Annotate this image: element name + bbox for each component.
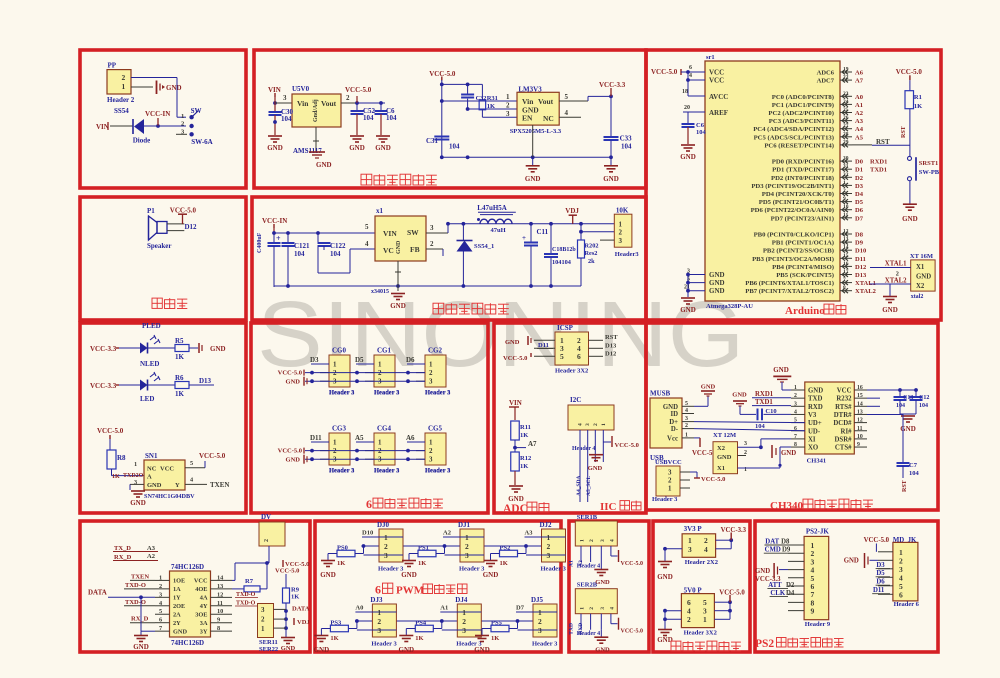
- svg-text:C32: C32: [476, 95, 487, 102]
- svg-text:28: 28: [843, 131, 849, 137]
- svg-text:A4_SDA: A4_SDA: [576, 475, 582, 496]
- svg-text:xtal2: xtal2: [911, 294, 924, 300]
- svg-text:9: 9: [843, 196, 846, 202]
- svg-text:Header 3: Header 3: [329, 390, 355, 397]
- svg-text:5: 5: [565, 93, 569, 101]
- svg-text:VCC-5.0: VCC-5.0: [199, 452, 226, 460]
- svg-text:2: 2: [538, 617, 542, 626]
- svg-text:PB1 (PCINT1/OC1A): PB1 (PCINT1/OC1A): [772, 240, 834, 247]
- svg-text:sr1: sr1: [706, 54, 715, 61]
- svg-text:D13: D13: [855, 272, 867, 279]
- svg-text:A3: A3: [147, 545, 156, 552]
- svg-text:2: 2: [430, 240, 434, 248]
- svg-text:A6: A6: [406, 434, 415, 442]
- svg-text:GND: GND: [588, 465, 603, 472]
- svg-text:2: 2: [593, 423, 599, 426]
- svg-text:16: 16: [843, 261, 849, 267]
- svg-text:DJ1: DJ1: [458, 521, 471, 529]
- svg-text:Header 3: Header 3: [541, 566, 567, 573]
- svg-text:SPX5205M5-L-3.3: SPX5205M5-L-3.3: [510, 128, 562, 135]
- svg-text:15: 15: [843, 253, 849, 259]
- svg-text:PC3 (ADC3/PCINT11): PC3 (ADC3/PCINT11): [769, 118, 834, 125]
- svg-text:104: 104: [896, 403, 905, 409]
- svg-text:2: 2: [261, 616, 265, 624]
- svg-text:NLED: NLED: [140, 360, 159, 368]
- svg-text:20: 20: [684, 105, 690, 111]
- svg-text:D2: D2: [855, 175, 863, 182]
- svg-text:3: 3: [744, 441, 747, 447]
- svg-text:GND: GND: [902, 215, 918, 223]
- svg-text:TXEN: TXEN: [210, 481, 229, 489]
- svg-text:GND: GND: [396, 240, 402, 254]
- svg-text:3: 3: [429, 456, 433, 464]
- svg-text:TXD: TXD: [569, 623, 575, 635]
- svg-text:GND: GND: [882, 306, 898, 314]
- svg-text:Header 3X2: Header 3X2: [684, 630, 717, 637]
- svg-text:RX_D: RX_D: [114, 554, 132, 561]
- svg-text:2: 2: [687, 615, 691, 624]
- svg-text:104: 104: [281, 115, 292, 123]
- svg-text:GND: GND: [709, 287, 725, 295]
- svg-text:A2: A2: [855, 110, 863, 117]
- svg-text:2: 2: [547, 542, 551, 551]
- svg-text:Arduino: Arduino: [785, 305, 825, 317]
- svg-text:D6: D6: [406, 356, 415, 364]
- svg-text:6: 6: [577, 352, 581, 361]
- svg-text:C18B12b: C18B12b: [552, 247, 576, 253]
- svg-text:Header 4: Header 4: [572, 446, 595, 452]
- svg-text:D12: D12: [185, 223, 198, 231]
- svg-text:MUSB: MUSB: [650, 390, 671, 398]
- svg-text:1K: 1K: [415, 635, 423, 642]
- svg-text:2: 2: [685, 423, 688, 429]
- svg-text:PD0 (RXD/PCINT16): PD0 (RXD/PCINT16): [772, 159, 834, 166]
- svg-text:4A: 4A: [200, 595, 208, 602]
- svg-text:C31: C31: [426, 137, 439, 145]
- svg-text:2OE: 2OE: [173, 603, 185, 610]
- svg-text:2: 2: [122, 73, 126, 82]
- svg-text:2: 2: [462, 617, 466, 626]
- svg-text:Header 3X2: Header 3X2: [555, 368, 588, 375]
- svg-text:13: 13: [857, 409, 863, 415]
- svg-text:SS54: SS54: [114, 107, 129, 115]
- svg-text:VIN: VIN: [96, 123, 109, 131]
- svg-text:RXD1: RXD1: [755, 391, 774, 398]
- svg-text:CG1: CG1: [377, 347, 392, 355]
- svg-text:6: 6: [375, 583, 381, 597]
- svg-text:4: 4: [578, 423, 584, 426]
- svg-text:D11: D11: [855, 256, 866, 263]
- svg-text:1K: 1K: [520, 432, 528, 439]
- svg-text:CH340: CH340: [770, 500, 804, 512]
- svg-text:GND: GND: [657, 573, 673, 581]
- svg-text:DATA: DATA: [292, 606, 310, 613]
- svg-text:104: 104: [909, 470, 920, 477]
- svg-text:104: 104: [330, 250, 341, 258]
- svg-text:C6: C6: [696, 122, 705, 129]
- svg-text:C10: C10: [765, 408, 776, 415]
- svg-text:5: 5: [685, 401, 688, 407]
- svg-text:SW-PB: SW-PB: [919, 169, 940, 176]
- svg-text:13: 13: [217, 583, 223, 590]
- svg-text:ID: ID: [670, 411, 678, 418]
- svg-text:3: 3: [462, 626, 466, 635]
- svg-text:PD6 (PCINT22/OC0A/AIN0): PD6 (PCINT22/OC0A/AIN0): [751, 207, 834, 214]
- svg-text:3: 3: [688, 545, 692, 554]
- svg-text:74HC126D: 74HC126D: [171, 639, 204, 647]
- svg-text:PD2 (INT0/PCINT18): PD2 (INT0/PCINT18): [771, 175, 834, 182]
- svg-text:GND: GND: [375, 144, 391, 152]
- svg-text:3Y: 3Y: [200, 628, 208, 635]
- svg-text:1A: 1A: [173, 586, 181, 593]
- svg-text:1: 1: [378, 439, 382, 447]
- svg-text:GND: GND: [483, 571, 499, 579]
- svg-text:1K: 1K: [500, 560, 508, 567]
- svg-text:3: 3: [600, 539, 606, 542]
- svg-text:A2: A2: [147, 553, 155, 560]
- svg-text:GND: GND: [320, 571, 336, 579]
- svg-text:1K: 1K: [112, 474, 120, 480]
- svg-text:1OE: 1OE: [173, 578, 185, 585]
- svg-text:C121: C121: [294, 242, 310, 250]
- svg-text:1: 1: [462, 608, 466, 617]
- svg-text:GND: GND: [781, 450, 796, 457]
- svg-text:D6: D6: [876, 579, 885, 586]
- svg-text:1K: 1K: [330, 635, 338, 642]
- svg-text:1K: 1K: [491, 635, 499, 642]
- svg-text:DCD#: DCD#: [833, 420, 852, 427]
- svg-text:VCC-5.0: VCC-5.0: [615, 442, 639, 449]
- svg-text:VCC-5.0: VCC-5.0: [170, 207, 197, 215]
- svg-text:2: 2: [465, 542, 469, 551]
- svg-text:Diode: Diode: [133, 137, 151, 145]
- svg-text:14: 14: [843, 245, 849, 251]
- svg-text:GND: GND: [709, 279, 725, 287]
- svg-text:VCC-5.0: VCC-5.0: [701, 476, 725, 483]
- svg-text:1K: 1K: [337, 560, 345, 567]
- svg-text:D7: D7: [516, 605, 525, 612]
- svg-text:VCC-IN: VCC-IN: [262, 217, 287, 225]
- svg-text:2: 2: [429, 447, 433, 455]
- svg-text:D9: D9: [855, 240, 864, 247]
- svg-text:6: 6: [366, 497, 372, 511]
- svg-text:PWM: PWM: [396, 585, 425, 597]
- svg-text:GND: GND: [210, 345, 226, 353]
- svg-text:XI: XI: [808, 436, 816, 443]
- svg-text:VCC: VCC: [194, 578, 208, 585]
- svg-text:VCC-3.3: VCC-3.3: [90, 382, 117, 390]
- svg-text:2: 2: [619, 229, 623, 237]
- svg-text:x34015: x34015: [371, 289, 389, 295]
- svg-text:P1: P1: [147, 207, 155, 215]
- svg-text:1: 1: [333, 439, 337, 447]
- svg-text:A1: A1: [569, 560, 575, 567]
- svg-text:3OE: 3OE: [195, 612, 207, 619]
- svg-text:4: 4: [609, 607, 615, 610]
- svg-text:XTAL2: XTAL2: [855, 288, 876, 295]
- svg-text:VC: VC: [383, 246, 394, 255]
- svg-text:X1: X1: [717, 465, 725, 472]
- svg-text:D3: D3: [310, 356, 319, 364]
- svg-text:x1: x1: [376, 207, 384, 215]
- svg-text:A0: A0: [355, 605, 363, 612]
- svg-text:30: 30: [843, 156, 849, 162]
- svg-text:3: 3: [585, 423, 591, 426]
- svg-text:D8: D8: [781, 539, 790, 546]
- svg-text:ICSP: ICSP: [557, 324, 574, 332]
- svg-text:Header 3: Header 3: [652, 496, 678, 503]
- svg-text:5: 5: [365, 223, 369, 231]
- svg-text:VCC-5.0: VCC-5.0: [278, 448, 302, 455]
- svg-text:NC: NC: [543, 114, 554, 123]
- svg-text:SER11: SER11: [259, 639, 278, 646]
- svg-text:Header 3: Header 3: [459, 566, 485, 573]
- svg-text:2: 2: [264, 539, 270, 542]
- svg-text:VIN: VIN: [509, 399, 522, 407]
- svg-text:PB6 (PCINT6/XTAL1/TOSC1): PB6 (PCINT6/XTAL1/TOSC1): [745, 280, 834, 287]
- svg-text:PD5 (PCINT21/OC0B/T1): PD5 (PCINT21/OC0B/T1): [759, 199, 834, 206]
- svg-text:25: 25: [843, 107, 849, 113]
- svg-text:GND: GND: [595, 647, 610, 654]
- svg-text:D11: D11: [310, 434, 322, 442]
- svg-text:R8: R8: [117, 454, 126, 462]
- svg-text:C13: C13: [903, 395, 913, 401]
- svg-text:74HC126D: 74HC126D: [171, 563, 204, 571]
- svg-text:6: 6: [899, 590, 903, 599]
- svg-text:4: 4: [704, 545, 708, 554]
- svg-text:R9: R9: [291, 587, 300, 594]
- svg-text:CG0: CG0: [332, 347, 347, 355]
- svg-text:A5: A5: [355, 434, 364, 442]
- svg-text:4Y: 4Y: [200, 603, 208, 610]
- svg-text:2: 2: [506, 102, 510, 110]
- svg-text:D2: D2: [786, 582, 795, 589]
- svg-text:VCC: VCC: [160, 466, 174, 473]
- svg-text:9: 9: [857, 442, 860, 448]
- svg-text:XT 12M: XT 12M: [713, 432, 736, 439]
- svg-text:4: 4: [794, 409, 797, 415]
- svg-text:VCC-IN: VCC-IN: [145, 110, 170, 118]
- svg-text:VCC: VCC: [837, 388, 852, 395]
- svg-text:4: 4: [365, 240, 369, 248]
- svg-text:4: 4: [685, 408, 688, 414]
- svg-text:3: 3: [619, 237, 623, 245]
- svg-text:PB2 (PCINT2/SS/OC1B): PB2 (PCINT2/SS/OC1B): [763, 248, 834, 255]
- svg-text:PP: PP: [108, 62, 117, 70]
- svg-text:7: 7: [843, 277, 846, 283]
- svg-text:5: 5: [190, 460, 193, 467]
- svg-text:Atmega328P-AU: Atmega328P-AU: [706, 303, 753, 310]
- svg-text:PD7 (PCINT23/AIN1): PD7 (PCINT23/AIN1): [771, 215, 834, 222]
- svg-text:VCC: VCC: [709, 77, 724, 85]
- svg-text:10K: 10K: [616, 207, 629, 215]
- svg-text:C122: C122: [330, 242, 346, 250]
- svg-text:2A: 2A: [173, 612, 181, 619]
- svg-text:Header 4: Header 4: [577, 631, 600, 637]
- svg-text:2: 2: [794, 393, 797, 399]
- svg-text:1: 1: [843, 180, 846, 186]
- svg-text:C7: C7: [909, 462, 918, 469]
- svg-text:CG3: CG3: [332, 425, 347, 433]
- svg-text:R6: R6: [175, 374, 184, 382]
- svg-text:2: 2: [181, 121, 184, 128]
- svg-text:32: 32: [843, 172, 849, 178]
- svg-text:DAT: DAT: [765, 539, 779, 546]
- svg-text:GND: GND: [281, 645, 296, 652]
- svg-text:6: 6: [159, 617, 162, 624]
- svg-text:TXD1: TXD1: [870, 166, 887, 173]
- svg-text:1: 1: [794, 385, 797, 391]
- svg-text:3: 3: [506, 110, 510, 118]
- svg-text:GND: GND: [349, 144, 365, 152]
- svg-text:PD4 (PCINT20/XCK/T0): PD4 (PCINT20/XCK/T0): [762, 191, 834, 198]
- svg-text:1K: 1K: [291, 594, 299, 601]
- svg-text:GND: GND: [663, 404, 678, 411]
- svg-text:17: 17: [843, 269, 849, 275]
- svg-text:GND: GND: [166, 84, 182, 92]
- svg-text:D7: D7: [855, 215, 864, 222]
- svg-text:1Y: 1Y: [173, 595, 181, 602]
- svg-text:1K: 1K: [914, 103, 922, 110]
- svg-text:D12: D12: [855, 264, 866, 271]
- svg-text:23: 23: [843, 91, 849, 97]
- svg-text:VCC-5.0: VCC-5.0: [651, 68, 678, 76]
- svg-text:R5: R5: [175, 337, 184, 345]
- svg-text:D8: D8: [855, 232, 864, 239]
- svg-text:D11: D11: [538, 342, 549, 349]
- svg-text:CG2: CG2: [428, 347, 443, 355]
- svg-text:R7: R7: [245, 578, 254, 585]
- svg-text:ADC6: ADC6: [817, 70, 835, 77]
- svg-text:Header 2X2: Header 2X2: [685, 559, 718, 566]
- svg-text:12: 12: [843, 229, 849, 235]
- svg-text:27: 27: [843, 123, 849, 129]
- svg-text:3: 3: [547, 551, 551, 560]
- svg-text:XT 16M: XT 16M: [910, 253, 933, 260]
- svg-text:3V3 P: 3V3 P: [684, 525, 703, 533]
- svg-text:UD+: UD+: [808, 420, 822, 427]
- svg-text:SN1: SN1: [145, 452, 158, 460]
- svg-text:Header 3: Header 3: [532, 641, 558, 648]
- svg-text:6: 6: [689, 65, 692, 71]
- svg-text:PB5 (SCK/PCINT5): PB5 (SCK/PCINT5): [776, 272, 834, 279]
- svg-text:1: 1: [580, 607, 586, 610]
- svg-text:GND: GND: [286, 379, 301, 386]
- svg-text:ADC7: ADC7: [817, 78, 835, 85]
- svg-text:3: 3: [283, 94, 287, 102]
- svg-text:I2C: I2C: [570, 396, 581, 404]
- svg-text:8: 8: [217, 625, 220, 632]
- svg-text:A1: A1: [855, 102, 863, 109]
- svg-text:D3: D3: [855, 183, 864, 190]
- svg-text:3: 3: [794, 401, 797, 407]
- svg-text:1: 1: [122, 82, 126, 91]
- svg-text:104: 104: [755, 423, 766, 430]
- svg-text:RI#: RI#: [841, 428, 853, 435]
- svg-text:GND: GND: [717, 454, 732, 461]
- svg-text:Header 3: Header 3: [374, 390, 400, 397]
- svg-text:A1: A1: [440, 605, 448, 612]
- svg-text:3: 3: [134, 479, 137, 486]
- svg-text:1: 1: [261, 625, 265, 633]
- svg-text:A5: A5: [855, 134, 864, 141]
- svg-text:12: 12: [217, 591, 223, 598]
- svg-text:SRST1: SRST1: [919, 160, 939, 167]
- svg-text:1K: 1K: [487, 103, 495, 110]
- svg-text:D+: D+: [669, 419, 678, 426]
- svg-text:GND: GND: [173, 628, 187, 635]
- svg-text:VCC-5.0: VCC-5.0: [621, 629, 644, 635]
- svg-text:Header 2: Header 2: [107, 96, 135, 104]
- svg-text:D5: D5: [876, 570, 885, 577]
- svg-text:1: 1: [378, 361, 382, 369]
- svg-text:A3: A3: [525, 530, 534, 537]
- svg-text:Header 6: Header 6: [894, 601, 920, 608]
- svg-text:UD-: UD-: [808, 428, 821, 435]
- svg-text:GND: GND: [267, 144, 283, 152]
- svg-text:1: 1: [159, 574, 162, 581]
- svg-text:GND: GND: [844, 558, 859, 565]
- svg-text:D5: D5: [355, 356, 364, 364]
- svg-text:A7: A7: [528, 440, 537, 448]
- svg-text:11: 11: [857, 426, 863, 432]
- svg-text:CG5: CG5: [428, 425, 443, 433]
- svg-text:1: 1: [601, 423, 607, 426]
- svg-text:C400uF: C400uF: [257, 232, 263, 253]
- svg-text:A0: A0: [855, 94, 863, 101]
- svg-text:X2: X2: [717, 445, 725, 452]
- svg-text:3: 3: [377, 626, 381, 635]
- svg-text:GND: GND: [916, 274, 931, 281]
- svg-text:CH341: CH341: [807, 458, 827, 465]
- svg-text:4: 4: [609, 539, 615, 542]
- svg-text:DSR#: DSR#: [835, 436, 853, 443]
- svg-text:GND: GND: [401, 571, 417, 579]
- svg-text:D9: D9: [782, 547, 791, 554]
- svg-text:1: 1: [538, 608, 542, 617]
- svg-text:VCC-5.0: VCC-5.0: [429, 70, 456, 78]
- svg-text:GND: GND: [603, 175, 619, 183]
- svg-text:SER2B: SER2B: [577, 582, 598, 589]
- svg-text:RTS#: RTS#: [835, 404, 852, 411]
- svg-text:ATT: ATT: [768, 582, 782, 589]
- svg-text:DJ5: DJ5: [531, 596, 544, 604]
- svg-text:VIN: VIN: [383, 229, 397, 238]
- svg-text:VDJ: VDJ: [565, 207, 579, 215]
- svg-text:14: 14: [857, 401, 863, 407]
- svg-text:2: 2: [429, 369, 433, 377]
- svg-text:RX_D: RX_D: [131, 616, 149, 623]
- svg-text:D0: D0: [855, 159, 863, 166]
- svg-text:VCC-5.0: VCC-5.0: [97, 427, 124, 435]
- svg-text:PB4 (PCINT4/MISO): PB4 (PCINT4/MISO): [772, 264, 834, 271]
- svg-text:24: 24: [843, 99, 849, 105]
- svg-text:GND: GND: [709, 271, 725, 279]
- svg-text:PC4 (ADC4/SDA/PCINT12): PC4 (ADC4/SDA/PCINT12): [753, 126, 834, 133]
- svg-text:DV: DV: [261, 513, 271, 521]
- svg-text:104: 104: [621, 143, 632, 151]
- svg-text:Vout: Vout: [321, 99, 337, 108]
- svg-text:1: 1: [703, 615, 707, 624]
- svg-text:Res2: Res2: [585, 250, 598, 257]
- svg-text:104: 104: [919, 403, 928, 409]
- svg-text:DJ4: DJ4: [455, 596, 468, 604]
- svg-text:R12: R12: [520, 455, 531, 462]
- svg-text:USBVCC: USBVCC: [655, 459, 682, 466]
- svg-text:1: 1: [506, 93, 510, 101]
- svg-text:Header 3: Header 3: [329, 468, 355, 475]
- svg-text:ADC: ADC: [503, 503, 528, 515]
